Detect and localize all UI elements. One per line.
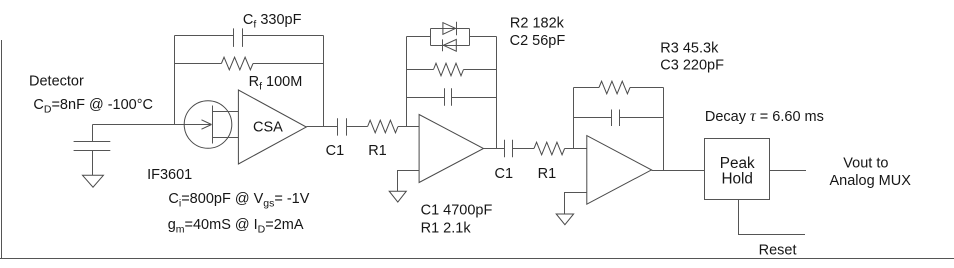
wire: stage3 feedback right vertical [663,88,665,171]
svg-text:CSA: CSA [253,120,283,136]
block: Peak Hold [705,139,770,200]
op-amp U2 triangle [419,115,483,183]
resistor R3 45.3k [599,81,630,94]
wire: stub down to detector capacitor [92,125,94,142]
op-amp U3 triangle [587,136,652,205]
wire: C3 rail [574,117,664,119]
svg-text:R2 182k: R2 182k [510,16,565,32]
capacitor C1 (stage3 coupling) [505,140,513,157]
svg-text:C3 220pF: C3 220pF [660,57,724,73]
capacitor Cf 330pF [234,28,243,47]
svg-text:Detector: Detector [29,74,84,90]
wire: stage1 feedback right vertical [323,36,325,127]
wire: entry to diode pair box [407,36,431,38]
wire: U3 output to Peak Hold [652,170,705,172]
wire: C1 to R1 [513,148,535,150]
wire: CSA output to C1 [306,126,337,128]
transistor Q1 gate arrow [202,120,212,129]
svg-text:Analog MUX: Analog MUX [830,173,912,189]
svg-text:R1: R1 [538,166,557,182]
wire: stage2 feedback left vertical [406,37,408,127]
wire: U2 output to C1 [484,148,505,150]
wire: R3 rail [574,87,664,89]
ground (U2) [389,191,406,202]
op-amp U1 CSA triangle [238,90,306,164]
resistor R1 (stage3 input) [534,142,565,155]
wire: stage2 feedback right vertical [496,37,498,149]
ground (U3) [556,214,573,225]
wire: R2 rail [407,69,497,71]
svg-text:R1: R1 [368,143,387,159]
svg-text:Vout to: Vout to [843,155,888,171]
svg-text:C2 56pF: C2 56pF [510,33,566,49]
svg-text:IF3601: IF3601 [147,167,192,183]
transistor Q1 JFET circle [184,101,232,149]
wire: diode box bottom branch [431,45,470,47]
svg-text:Decay τ = 6.60 ms: Decay τ = 6.60 ms [705,108,824,125]
svg-text:Ci=800pF @ Vgs= -1V: Ci=800pF @ Vgs= -1V [168,191,309,210]
wire: R1 to U2 inverting input [398,126,419,128]
wire: stage3 feedback left vertical [573,88,575,149]
svg-text:gm=40mS @ ID=2mA: gm=40mS @ ID=2mA [168,217,304,236]
wire: R1 to U3 inverting input [565,148,587,150]
wire: reset line [739,200,806,235]
svg-text:C1: C1 [326,143,345,159]
svg-text:Peak: Peak [720,155,755,172]
svg-text:C1: C1 [495,166,514,182]
resistor R2 182k [434,63,464,76]
wire: stage1 middle rail (Rf branch) [175,63,324,65]
wire: stage1 top rail (Cf branch) [175,35,324,37]
svg-text:R3 45.3k: R3 45.3k [660,41,719,57]
wire: detector node to JFET gate [93,124,212,126]
wire: CD to ground [92,151,94,176]
wire: diode box top branch [431,28,470,30]
wire: diode box to feedback right [470,36,497,38]
svg-text:Hold: Hold [721,171,752,188]
wire: stage1 feedback left vertical [174,36,176,125]
diode D1 (points right) [443,22,457,36]
page border left edge [1,40,3,258]
diode D2 (points left) [443,39,457,51]
svg-text:Cf 330pF: Cf 330pF [243,12,302,31]
capacitor C1 (stage2 coupling) [338,118,347,135]
wire: diode box right vertical [469,29,471,46]
capacitor C3 220pF [612,110,620,127]
wire: C2 rail [407,97,497,99]
capacitor CD (detector) [74,142,111,151]
wire: U2 non-inverting input to ground [398,171,420,192]
svg-text:CD=8nF @ -100°C: CD=8nF @ -100°C [33,97,153,116]
wire: Q1 source to CSA [213,137,239,139]
page border bottom edge [0,258,954,260]
svg-text:Reset: Reset [759,242,797,258]
ground (detector) [83,175,104,187]
svg-text:C1 4700pF: C1 4700pF [421,203,493,219]
wire: U3 non-inverting input to ground [565,193,587,215]
capacitor C2 56pF [445,88,452,105]
wire: Q1 drain to CSA [213,111,239,113]
wire: diode box left vertical [430,29,432,46]
transistor Q1 channel bar [212,106,214,144]
resistor Rf 100M [221,57,253,70]
svg-text:Rf 100M: Rf 100M [249,74,303,93]
wire: Vout [770,170,807,172]
wire: C1 to R1 [347,126,368,128]
svg-text:R1 2.1k: R1 2.1k [421,221,472,237]
resistor R1 (stage2 input) [368,120,398,133]
